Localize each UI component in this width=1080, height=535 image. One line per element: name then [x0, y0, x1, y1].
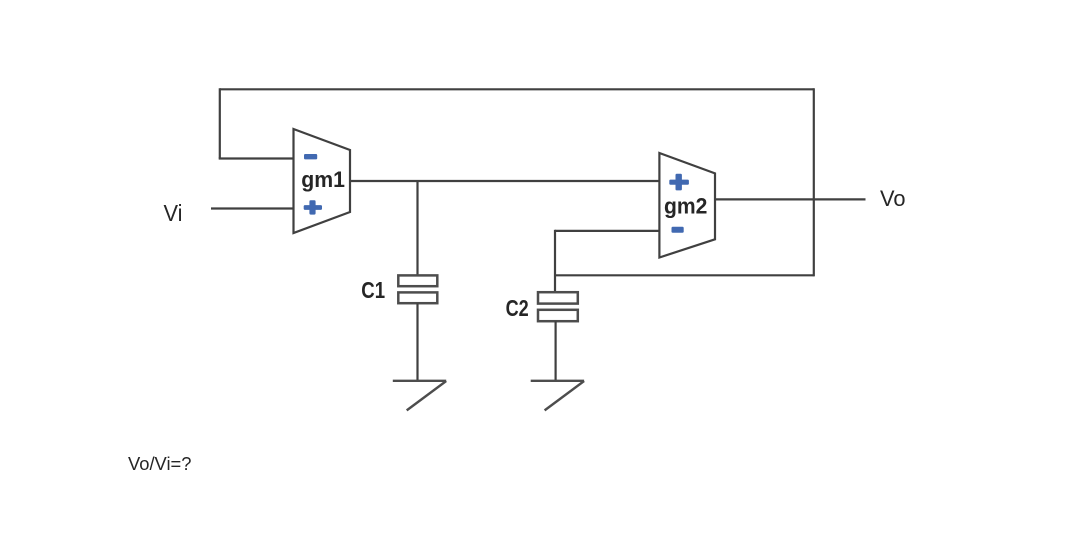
- op-amp U2 gm2 OTA body: [659, 153, 715, 258]
- gm1 inverting input minus symbol: [304, 154, 317, 159]
- wire: gm2 output to Vo: [715, 198, 866, 200]
- wire: C1 top lead from output node: [416, 181, 418, 276]
- svg-text:Vo/Vi=?: Vo/Vi=?: [128, 454, 192, 474]
- ground symbol below C2: [531, 381, 584, 411]
- wire: feedback right vertical riser: [813, 88, 815, 276]
- wire: feedback return horizontal to right riser: [555, 274, 814, 276]
- gm1 non-inverting input plus symbol: [304, 200, 322, 214]
- wire: C2 node vertical: [554, 230, 556, 292]
- wire: top feedback horizontal (gm1 inverting loop): [220, 88, 814, 90]
- gm2 inverting input minus symbol: [672, 227, 684, 233]
- capacitor C1: [398, 275, 437, 303]
- wire: into gm1 inverting input: [219, 157, 294, 159]
- wire: C2 bottom lead to ground: [554, 321, 556, 381]
- svg-text:C2: C2: [506, 295, 529, 321]
- wire: feedback left vertical drop: [219, 88, 221, 158]
- svg-text:Vi: Vi: [164, 200, 183, 226]
- capacitor C2: [538, 292, 578, 321]
- svg-text:Vo: Vo: [880, 186, 906, 211]
- wire: C1 bottom lead to ground: [416, 303, 418, 381]
- svg-text:C1: C1: [361, 277, 385, 303]
- ground symbol below C1: [393, 381, 446, 411]
- wire: Vi input to gm1 non-inverting input: [211, 207, 294, 209]
- wire: gm1 output to gm2 non-inverting input: [350, 180, 660, 182]
- svg-text:gm1: gm1: [301, 167, 345, 192]
- wire: gm2 inverting input to C2 node: [555, 230, 660, 232]
- gm2 non-inverting input plus symbol: [669, 174, 689, 191]
- svg-text:gm2: gm2: [664, 194, 707, 219]
- op-amp U1 gm1 OTA body: [294, 129, 351, 233]
